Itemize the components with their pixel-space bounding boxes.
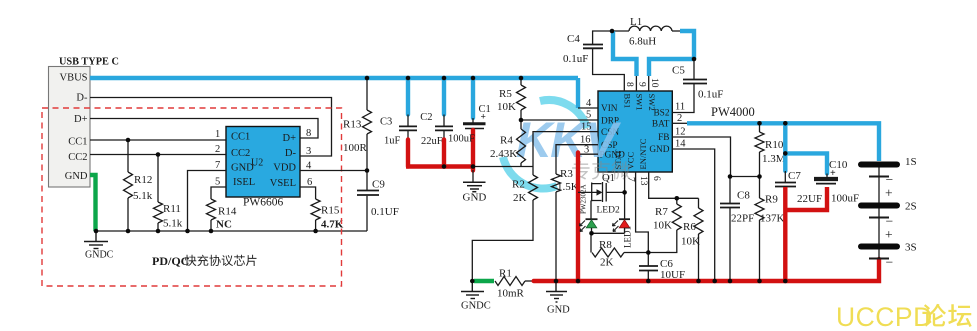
svg-text:10: 10 [649, 78, 659, 88]
svg-text:10UF: 10UF [660, 269, 685, 281]
wire CSP pin16 [556, 145, 598, 174]
svg-text:+: + [885, 227, 893, 242]
svg-text:3: 3 [306, 146, 311, 157]
svg-text:22PF: 22PF [731, 213, 754, 225]
svg-text:2S: 2S [905, 201, 917, 213]
svg-text:R4: R4 [500, 135, 513, 147]
wire D- [90, 98, 332, 157]
svg-text:SW1: SW1 [635, 94, 645, 111]
svg-text:2.43K: 2.43K [490, 148, 517, 160]
svg-text:2K: 2K [513, 192, 527, 204]
svg-text:D+: D+ [74, 114, 88, 125]
svg-text:USB TYPE C: USB TYPE C [59, 57, 119, 68]
svg-text:7: 7 [215, 160, 220, 171]
resistor R11 [157, 155, 159, 203]
svg-text:GNDC: GNDC [461, 301, 491, 312]
svg-text:EN/NTC: EN/NTC [638, 138, 648, 169]
svg-text:BAT: BAT [652, 120, 670, 130]
wire D+ [90, 119, 318, 139]
svg-text:1.3M: 1.3M [762, 153, 786, 165]
ground GNDC bottom [461, 281, 484, 299]
resistor R8 [590, 233, 592, 252]
wire U2 GND pin7 [188, 171, 227, 232]
wire ground to R4 bottom [473, 166, 533, 168]
capacitor C10 electrolytic [785, 153, 827, 173]
svg-text:4.7K: 4.7K [321, 219, 344, 231]
svg-text:VSEL: VSEL [270, 178, 296, 189]
svg-text:0.1UF: 0.1UF [371, 206, 399, 218]
resistor R5 [520, 78, 522, 85]
wire U2 VDD pin4 [300, 170, 367, 172]
wire FB node [731, 176, 760, 178]
resistor R6 [698, 198, 700, 208]
svg-text:CC1: CC1 [68, 137, 87, 148]
svg-text:R11: R11 [163, 203, 181, 215]
wire input cap ground bus red [406, 164, 474, 168]
svg-text:6: 6 [651, 176, 661, 181]
wire STAT pin7 [624, 172, 626, 192]
svg-text:13: 13 [638, 176, 648, 186]
svg-text:8: 8 [306, 128, 311, 139]
svg-text:+: + [830, 168, 836, 179]
pin numbers U1 top [624, 78, 659, 88]
svg-text:R10: R10 [765, 139, 784, 151]
svg-text:C8: C8 [737, 190, 750, 202]
capacitor C6 [647, 253, 649, 266]
svg-text:6: 6 [307, 177, 312, 188]
svg-text:R9: R9 [765, 194, 778, 206]
wire LED cathodes join [592, 232, 625, 234]
resistor R4 [517, 129, 526, 163]
capacitor C4 [593, 31, 612, 44]
wire CC1 [90, 139, 226, 141]
capacitor C8 [729, 177, 731, 204]
svg-text:U2: U2 [251, 157, 263, 168]
svg-text:5: 5 [215, 177, 220, 188]
svg-text:VBUS: VBUS [59, 73, 87, 84]
resistor R14 [211, 187, 226, 199]
wire PGND pin3 red [578, 153, 598, 155]
svg-text:−: − [886, 255, 894, 270]
capacitor C2 [442, 79, 446, 115]
svg-text:R13: R13 [343, 119, 362, 131]
LED2 green [586, 218, 598, 220]
wire VBUS thick blue [90, 76, 578, 80]
svg-text:PD/QC: PD/QC [152, 254, 189, 268]
svg-text:BS1: BS1 [623, 94, 633, 109]
svg-text:C4: C4 [567, 33, 580, 45]
svg-text:R14: R14 [218, 206, 237, 218]
IC U1 PW4000 charger chip body [598, 91, 672, 172]
wire SW2 blue [680, 31, 694, 59]
wire GND pin14 [672, 149, 714, 281]
svg-text:D-: D- [285, 148, 297, 159]
svg-text:LED2: LED2 [597, 206, 620, 216]
svg-text:4: 4 [586, 98, 592, 109]
ground GND bottom rail [546, 281, 567, 302]
svg-text:10K: 10K [653, 220, 672, 232]
svg-text:137K: 137K [760, 213, 785, 225]
ground GND input caps [472, 170, 474, 182]
USB Type-C connector J1 [49, 57, 119, 188]
svg-text:GND: GND [65, 171, 88, 182]
svg-text:R15: R15 [321, 205, 340, 217]
svg-text:22UF: 22UF [797, 193, 822, 205]
svg-text:9: 9 [637, 82, 647, 87]
svg-text:5.1k: 5.1k [133, 190, 153, 202]
pin numbers U1 right [675, 102, 686, 150]
svg-text:GND: GND [649, 145, 669, 155]
svg-text:C5: C5 [672, 65, 685, 77]
IC U2 PW6606 protocol chip body [226, 127, 300, 209]
resistor R2 [529, 175, 538, 200]
svg-text:R6: R6 [683, 221, 696, 233]
svg-text:L1: L1 [630, 16, 642, 28]
svg-text:GND: GND [463, 192, 487, 204]
ground GNDC input [84, 231, 108, 249]
wire GND green [90, 175, 96, 231]
svg-text:2K: 2K [600, 257, 614, 269]
svg-text:R7: R7 [655, 206, 668, 218]
wire VCC pin13 [636, 172, 649, 253]
svg-text:14: 14 [675, 139, 686, 150]
svg-text:12: 12 [675, 127, 686, 138]
svg-text:3S: 3S [905, 242, 917, 254]
battery cell 3S [861, 244, 897, 250]
wire VBUS drop to VIN [576, 78, 580, 108]
svg-text:C2: C2 [420, 112, 432, 123]
svg-text:100uF: 100uF [448, 134, 475, 145]
wire DRP pin5 [521, 119, 598, 121]
svg-text:1uF: 1uF [384, 136, 401, 147]
svg-text:D-: D- [76, 93, 88, 104]
svg-text:2: 2 [677, 113, 682, 124]
svg-text:15: 15 [581, 122, 592, 133]
wire BAT thick blue [672, 122, 687, 124]
svg-text:R2: R2 [512, 179, 525, 191]
svg-text:C9: C9 [372, 179, 385, 191]
svg-text:ISEL: ISEL [233, 177, 255, 188]
svg-text:GND: GND [547, 305, 570, 316]
LED1 red [619, 218, 630, 220]
svg-text:NC: NC [216, 219, 232, 231]
svg-text:22uF: 22uF [421, 136, 443, 147]
svg-text:5: 5 [586, 110, 591, 121]
svg-text:SW2: SW2 [647, 94, 657, 111]
svg-text:VDD: VDD [273, 163, 296, 174]
svg-text:10K: 10K [497, 101, 516, 113]
svg-text:PW6606: PW6606 [243, 197, 284, 209]
resistor R10 [759, 123, 761, 132]
capacitor C1 electrolytic [471, 79, 475, 118]
svg-text:CC2: CC2 [68, 152, 87, 163]
wire FB pin12 [672, 137, 730, 177]
resistor R9 [759, 177, 761, 199]
svg-text:2: 2 [215, 144, 220, 155]
svg-text:PW4000: PW4000 [711, 105, 755, 119]
svg-text:100uF: 100uF [831, 193, 859, 205]
resistor R15 [300, 187, 316, 199]
capacitor C9 [366, 171, 368, 191]
svg-text:R12: R12 [134, 174, 152, 186]
wire Q1 source to LED2 [590, 201, 592, 220]
wire R2 to GNDC node [472, 200, 533, 281]
svg-text:5.1k: 5.1k [163, 218, 183, 230]
svg-text:100R: 100R [343, 142, 368, 154]
pin numbers U2 [215, 128, 312, 188]
svg-text:C3: C3 [380, 117, 392, 128]
svg-text:1S: 1S [905, 156, 917, 168]
pin numbers U1 left [580, 98, 592, 156]
svg-text:Q1: Q1 [602, 173, 615, 184]
svg-text:UCCPD: UCCPD [836, 302, 933, 331]
svg-text:+: + [481, 113, 486, 123]
svg-text:PW2302A: PW2302A [580, 184, 588, 214]
resistor R12 [127, 140, 129, 172]
svg-text:3: 3 [584, 145, 589, 156]
svg-text:0.1uF: 0.1uF [698, 89, 723, 101]
resistor R7 [676, 198, 678, 204]
svg-text:D+: D+ [282, 133, 296, 144]
svg-text:CC1: CC1 [231, 132, 250, 143]
svg-text:CC2: CC2 [231, 148, 250, 159]
capacitor C7 [783, 123, 787, 171]
svg-text:C7: C7 [788, 170, 801, 182]
wire PD section ground rail [96, 230, 368, 232]
battery cell 1S [861, 162, 897, 168]
wire CC2 [90, 154, 226, 156]
pin numbers U1 bottom [626, 176, 662, 186]
svg-text:R8: R8 [599, 239, 612, 251]
svg-text:0.1uF: 0.1uF [563, 53, 588, 65]
svg-text:10mR: 10mR [497, 288, 525, 300]
capacitor C3 [406, 79, 410, 115]
wire GNDC green segment [474, 279, 494, 283]
wire EN/NTC pin6 [649, 172, 699, 198]
svg-text:R1: R1 [499, 268, 512, 280]
svg-text:+: + [885, 186, 893, 201]
resistor R13 [366, 78, 368, 110]
svg-text:1.5K: 1.5K [557, 181, 579, 193]
svg-text:VCC: VCC [626, 152, 636, 170]
watermark swirl logo [503, 100, 587, 188]
watermark grey chinese text [572, 161, 589, 179]
svg-text:6.8uH: 6.8uH [629, 36, 656, 48]
svg-text:FB: FB [658, 133, 669, 143]
svg-text:7: 7 [626, 177, 636, 182]
wire LED1 anode [624, 192, 626, 219]
transistor Q1 PW2302A [578, 182, 625, 202]
wire SW1 blue [613, 31, 637, 76]
svg-text:R3: R3 [560, 168, 573, 180]
wire CSN pin15 [533, 132, 598, 175]
svg-text:11: 11 [675, 102, 685, 113]
svg-text:10K: 10K [681, 236, 700, 248]
capacitor C5 [693, 59, 695, 79]
wire battery minus bus red [534, 259, 879, 281]
svg-text:GNDC: GNDC [85, 250, 114, 261]
resistor R3 [552, 174, 561, 192]
resistor R1 current sense [495, 277, 525, 286]
svg-text:R5: R5 [499, 88, 512, 100]
svg-text:1: 1 [215, 129, 220, 140]
battery cell 2S [861, 203, 897, 209]
dashed enclosure PD protocol section [42, 108, 342, 286]
inductor L1 [629, 26, 672, 31]
svg-text:8: 8 [624, 82, 634, 87]
